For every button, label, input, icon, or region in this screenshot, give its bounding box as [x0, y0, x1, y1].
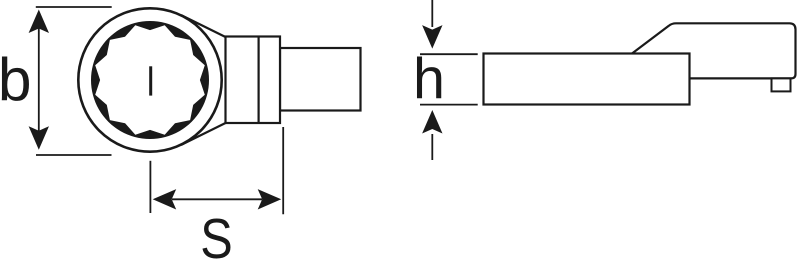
svg-text:h: h: [413, 47, 445, 111]
svg-text:S: S: [200, 208, 232, 265]
svg-text:b: b: [0, 45, 32, 113]
